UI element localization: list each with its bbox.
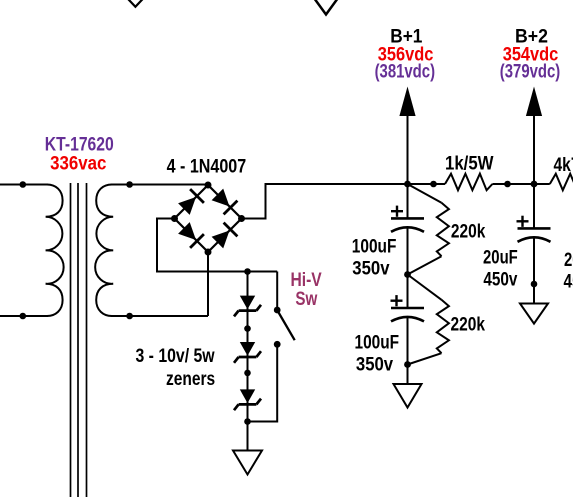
node between Z1 and Z2 — [244, 325, 251, 332]
label 100uF upper — [352, 235, 397, 257]
wire switch bottom branch — [248, 344, 278, 421]
ground below zener chain — [233, 451, 262, 475]
wire B+2 node down to capacitor C3 — [533, 184, 535, 228]
ground below C3 — [520, 304, 548, 324]
svg-text:1k/5W: 1k/5W — [445, 153, 494, 174]
zener diode Z3 — [234, 389, 261, 410]
svg-text:4k7: 4k7 — [554, 154, 573, 176]
node bottom of cap string — [404, 361, 411, 368]
svg-text:450v: 450v — [564, 270, 573, 292]
svg-text:220k: 220k — [451, 313, 486, 335]
wire 1k/5W to B+2 node — [492, 183, 534, 185]
svg-text:100uF: 100uF — [355, 331, 400, 353]
label 450v clipped — [564, 270, 573, 292]
zener diode Z2 — [234, 342, 261, 363]
wire zener bottom to ground — [247, 422, 249, 451]
label B+1 — [390, 26, 422, 47]
node B+1 junction — [404, 181, 411, 188]
transformer T1 core — [71, 183, 87, 497]
node secondary bottom terminal — [126, 313, 133, 320]
diode D1 (left node to top node) — [178, 189, 204, 215]
transformer T1 primary winding — [46, 185, 64, 317]
diode D4 (bottom node to right node) — [212, 223, 238, 249]
wire zener chain vertical — [247, 272, 249, 422]
svg-text:20uF: 20uF — [483, 247, 518, 268]
node primary top terminal — [20, 181, 27, 188]
node secondary top terminal — [126, 181, 133, 188]
label 3 - 10v/ 5w — [136, 345, 215, 367]
wire switch top branch — [276, 272, 278, 311]
svg-text:Sw: Sw — [295, 287, 317, 309]
ground stub top-middle (cropped) — [314, 0, 338, 15]
label KT-17620 — [45, 133, 114, 155]
capacitor C1 100uF 350v — [391, 206, 424, 232]
node B+2 junction — [531, 181, 538, 188]
label 4 - 1N4007 — [167, 155, 247, 177]
label 336vac — [50, 152, 106, 173]
B+1 arrow — [399, 87, 415, 185]
wire C3 to ground junction — [533, 238, 535, 304]
wire B+1 node down to capacitor C1 — [407, 184, 409, 218]
svg-text:zeners: zeners — [166, 367, 215, 389]
label 1k/5W — [445, 153, 494, 174]
wire bottom node to ground — [407, 365, 409, 385]
wire bridge left node to zener chain top — [157, 219, 277, 272]
node zener chain bottom junction — [244, 418, 251, 425]
svg-text:(379vdc): (379vdc) — [500, 61, 560, 82]
label 450v — [483, 268, 517, 290]
B+2 arrow — [526, 87, 542, 185]
wire C2 to bottom node — [407, 318, 409, 365]
wire B+2 node to resistor 4k7 — [534, 183, 550, 185]
node bridge left — [171, 215, 178, 222]
wire bridge bottom to secondary bottom — [207, 252, 209, 316]
wire middle node down to capacitor C2 — [407, 275, 409, 309]
svg-text:4 - 1N4007: 4 - 1N4007 — [167, 155, 247, 177]
label 20uF clipped — [564, 249, 573, 270]
node middle of cap string — [404, 271, 411, 278]
resistor 220k upper — [408, 184, 449, 275]
label (381vdc) — [375, 61, 435, 82]
svg-text:20uF: 20uF — [564, 249, 573, 270]
svg-text:350v: 350v — [356, 354, 393, 375]
label Sw — [295, 287, 317, 309]
resistor 4k7 (clipped at right edge) — [550, 174, 573, 191]
label (379vdc) — [500, 61, 560, 82]
label 350v lower — [356, 354, 393, 375]
wire primary bottom lead — [0, 315, 48, 317]
svg-text:100uF: 100uF — [352, 235, 397, 257]
capacitor C3 20uF 450v — [517, 216, 551, 242]
svg-text:336vac: 336vac — [50, 152, 106, 173]
diode D3 (left node to bottom node) — [178, 222, 204, 248]
wire C1 to middle node — [407, 228, 409, 275]
label 354vdc — [503, 43, 559, 64]
label 220k lower — [451, 313, 486, 335]
zener diode Z1 — [234, 296, 261, 317]
node bridge right — [238, 215, 245, 222]
bridge rectifier diamond wires — [175, 185, 242, 252]
transformer T1 secondary winding — [95, 185, 113, 317]
resistor 220k lower — [408, 275, 449, 365]
label 350v upper — [352, 258, 389, 279]
svg-text:220k: 220k — [451, 220, 486, 242]
resistor 1k/5W — [445, 174, 492, 191]
switch Hi-V Sw (open lever) — [274, 307, 295, 348]
capacitor C2 100uF 350v — [391, 295, 425, 321]
label 356vdc — [378, 43, 434, 64]
diode D2 (top node to right node) — [212, 189, 238, 215]
svg-text:(381vdc): (381vdc) — [375, 61, 435, 82]
node below C3 — [531, 281, 538, 288]
wire bridge right node to B+1 rail — [242, 184, 408, 219]
svg-text:450v: 450v — [483, 268, 517, 290]
ground below cap string — [394, 384, 422, 408]
node bridge top — [205, 182, 212, 189]
label 100uF lower — [355, 331, 400, 353]
ground stub top-left (cropped, above transformer) — [128, 0, 144, 7]
wire secondary bottom lead to bridge bottom — [111, 315, 208, 317]
node at 1k/5W right lead — [504, 181, 511, 188]
node primary bottom terminal — [20, 313, 27, 320]
svg-text:3 - 10v/ 5w: 3 - 10v/ 5w — [136, 345, 215, 367]
wire secondary top lead to bridge top node — [111, 184, 208, 186]
node bridge bottom — [205, 249, 212, 256]
label zeners — [166, 367, 215, 389]
wire primary top lead — [0, 184, 48, 186]
svg-text:350v: 350v — [352, 258, 389, 279]
wire B+1 node to resistor 1k/5W — [408, 183, 446, 185]
label 220k upper — [451, 220, 486, 242]
node at 1k/5W left lead — [430, 181, 437, 188]
label 4k7 — [554, 154, 573, 176]
node zener chain top junction — [244, 268, 251, 275]
node between Z2 and Z3 — [244, 370, 251, 377]
label 20uF — [483, 247, 518, 268]
label B+2 — [515, 25, 548, 47]
label Hi-V — [291, 269, 323, 291]
